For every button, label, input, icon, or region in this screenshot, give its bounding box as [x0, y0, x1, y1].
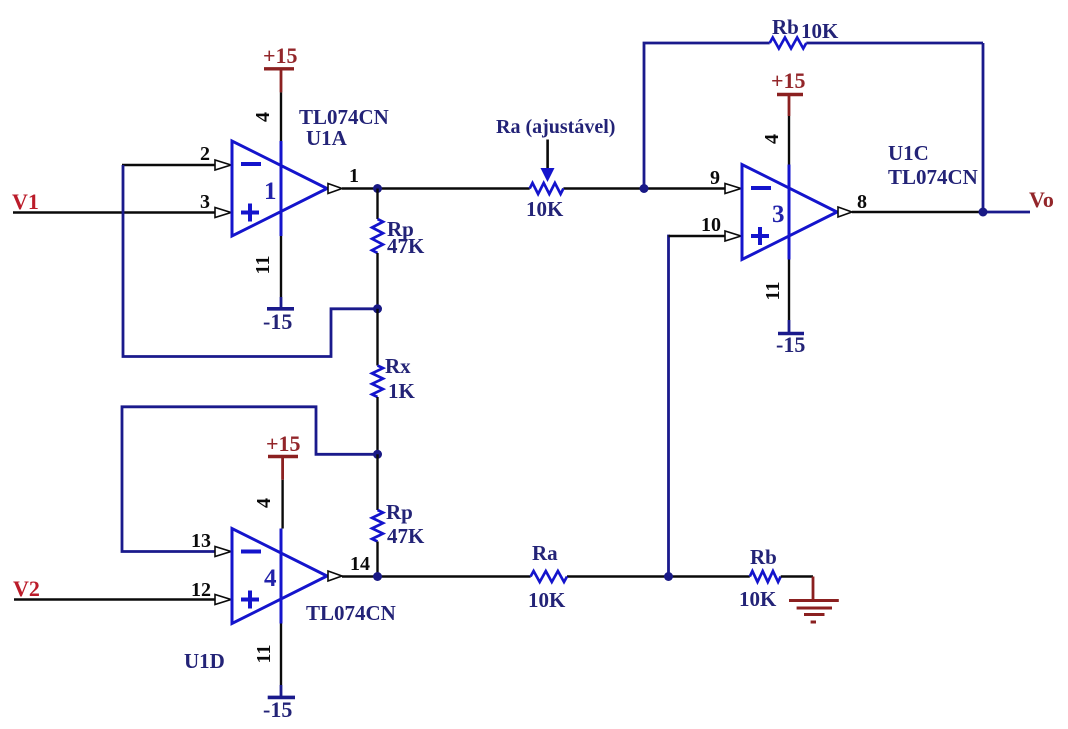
wire pin4 U1C: [788, 116, 790, 165]
pin 2 arrowhead: [215, 160, 231, 170]
node V1: [12, 189, 39, 214]
wire pin11 U1A: [280, 236, 282, 297]
svg-text:11: 11: [762, 282, 784, 301]
wire pin11 U1D: [280, 624, 282, 686]
node Ra/Rb junction: [664, 572, 673, 581]
svg-text:-15: -15: [776, 332, 805, 357]
pin 9 arrowhead: [725, 184, 741, 194]
svg-text:1: 1: [349, 165, 359, 187]
svg-text:Rx: Rx: [385, 354, 411, 378]
wire U1A pin2 stub: [122, 164, 216, 166]
pin 12 arrowhead: [215, 595, 231, 605]
node output U1D junction: [373, 572, 382, 581]
+15 supply U1A: [263, 43, 298, 92]
wire U1A feedback loop: [123, 165, 378, 357]
svg-text:-15: -15: [263, 309, 292, 334]
resistor Rb (top): [770, 38, 807, 49]
svg-text:1K: 1K: [388, 379, 416, 403]
wire pin4 U1A: [280, 92, 282, 141]
svg-text:Rb: Rb: [772, 15, 799, 39]
svg-text:Ra: Ra: [532, 541, 558, 565]
op-amp U1A: [232, 141, 342, 236]
resistor Ra (bottom): [531, 571, 567, 582]
node U1C output junction: [979, 208, 988, 217]
svg-text:10K: 10K: [528, 588, 566, 612]
svg-text:+15: +15: [771, 68, 806, 93]
svg-text:4: 4: [264, 565, 277, 592]
svg-text:+15: +15: [266, 431, 301, 456]
wire V1 to U1A pin3: [13, 211, 216, 213]
svg-text:V2: V2: [13, 576, 40, 601]
wire U1D output row: [342, 575, 531, 577]
pin 3 arrowhead: [215, 208, 231, 218]
svg-text:10K: 10K: [526, 197, 564, 221]
wire top feedback net: [644, 43, 770, 189]
-15 supply U1A: [263, 309, 294, 334]
svg-text:8: 8: [857, 191, 867, 213]
resistor Ra (ajustavel): [530, 140, 564, 195]
node Rx/Rp2 junction: [373, 450, 382, 459]
svg-text:11: 11: [253, 645, 275, 664]
svg-text:U1D: U1D: [184, 649, 225, 673]
svg-text:Rp: Rp: [386, 500, 413, 524]
wire pin4 U1D: [281, 480, 283, 529]
node main junction (top row): [640, 184, 649, 193]
svg-text:10K: 10K: [801, 19, 839, 43]
wire U1A output row: [342, 187, 530, 189]
wire U1C output: [852, 211, 983, 213]
svg-text:-15: -15: [263, 697, 292, 722]
svg-text:4: 4: [761, 134, 783, 144]
wire Rb to ground: [781, 575, 813, 577]
svg-text:U1C: U1C: [888, 141, 929, 165]
svg-text:TL074CN: TL074CN: [888, 165, 978, 189]
svg-text:10K: 10K: [739, 587, 777, 611]
svg-text:U1A: U1A: [306, 126, 348, 150]
svg-text:Vo: Vo: [1029, 187, 1054, 212]
+15 supply U1C: [771, 68, 806, 116]
wire junction up to pin10: [669, 236, 671, 577]
svg-text:3: 3: [772, 201, 785, 228]
resistor Rp (top): [372, 189, 383, 309]
svg-text:3: 3: [200, 191, 210, 213]
svg-text:TL074CN: TL074CN: [306, 601, 396, 625]
node Rp/Rx junction: [373, 304, 382, 313]
svg-text:Rb: Rb: [750, 545, 777, 569]
resistor Rb (bottom): [750, 571, 781, 582]
svg-text:9: 9: [710, 167, 720, 189]
+15 supply U1D: [266, 431, 301, 480]
wire V2 to U1D pin12: [14, 598, 216, 600]
svg-text:10: 10: [701, 214, 721, 236]
-15 supply U1C: [776, 332, 805, 357]
svg-text:4: 4: [252, 112, 274, 122]
wire pin11 U1C: [788, 260, 790, 321]
svg-text:47K: 47K: [387, 234, 425, 258]
wire U1D feedback loop: [122, 407, 378, 552]
svg-text:14: 14: [350, 553, 370, 575]
ground: [789, 577, 839, 623]
resistor Rp (bottom): [372, 454, 383, 576]
svg-text:4: 4: [253, 498, 275, 508]
op-amp U1D: [232, 529, 342, 624]
op-amp U1C: [742, 165, 852, 260]
svg-text:13: 13: [191, 530, 211, 552]
svg-text:12: 12: [191, 579, 211, 601]
svg-text:+15: +15: [263, 43, 298, 68]
pin 13 arrowhead: [215, 547, 231, 557]
svg-text:11: 11: [252, 256, 274, 275]
svg-text:V1: V1: [12, 189, 39, 214]
resistor Rx: [372, 309, 383, 455]
pin 10 arrowhead: [725, 231, 741, 241]
svg-text:47K: 47K: [387, 524, 425, 548]
node output U1A junction: [373, 184, 382, 193]
svg-text:Ra (ajustável): Ra (ajustável): [496, 116, 615, 138]
svg-text:2: 2: [200, 143, 210, 165]
-15 supply U1D: [263, 697, 295, 722]
svg-text:1: 1: [264, 178, 277, 205]
